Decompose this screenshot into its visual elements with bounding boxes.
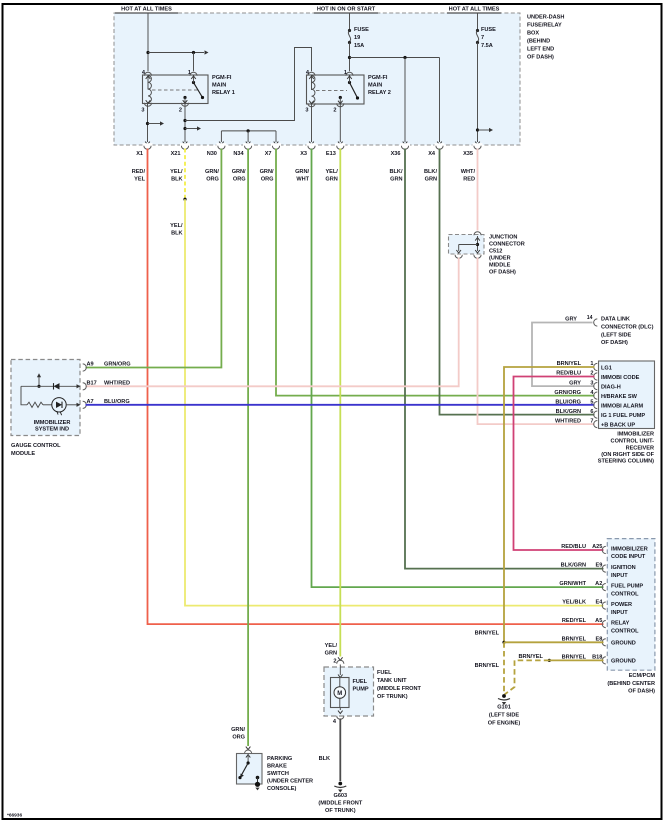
svg-text:1: 1	[188, 70, 191, 76]
svg-text:HOT AT ALL TIMES: HOT AT ALL TIMES	[449, 7, 500, 13]
svg-text:(LEFT SIDE: (LEFT SIDE	[601, 332, 632, 338]
connector N30	[218, 146, 225, 150]
svg-text:OF DASH): OF DASH)	[527, 55, 554, 61]
svg-text:PARKING: PARKING	[267, 756, 292, 762]
connector X4	[436, 146, 443, 150]
svg-text:(BEHIND CENTER: (BEHIND CENTER	[607, 681, 655, 687]
resistor R1	[27, 402, 43, 407]
relay U2 PGM-FI MAIN RELAY 2	[305, 70, 390, 114]
svg-text:YEL/BLK: YEL/BLK	[562, 600, 586, 606]
connector X7	[272, 146, 279, 150]
svg-text:MAIN: MAIN	[368, 83, 382, 89]
svg-text:WHT/: WHT/	[461, 169, 476, 175]
svg-text:(ON RIGHT SIDE OF: (ON RIGHT SIDE OF	[601, 452, 654, 458]
relay 2 coil-switch dashed link	[316, 90, 347, 92]
svg-text:IMMOBILIZER: IMMOBILIZER	[611, 547, 648, 553]
svg-text:GRN: GRN	[390, 177, 402, 183]
svg-text:+B BACK UP: +B BACK UP	[601, 422, 635, 428]
svg-text:C512: C512	[489, 249, 502, 255]
svg-text:STEERING COLUMN): STEERING COLUMN)	[598, 459, 654, 465]
svg-text:GRN/: GRN/	[295, 169, 309, 175]
gauge internal: branch arrow up	[38, 376, 40, 387]
wire YEL/GRN from E13 to fuel pump	[339, 149, 341, 657]
receiver pin 2	[594, 373, 598, 380]
svg-text:5: 5	[590, 399, 593, 405]
svg-text:BLK: BLK	[319, 756, 330, 762]
svg-text:CONNECTOR (DLC): CONNECTOR (DLC)	[601, 325, 654, 331]
junction connector C512	[449, 232, 525, 276]
svg-text:GRN: GRN	[325, 177, 337, 183]
wire drop to X4	[439, 58, 441, 143]
svg-text:OF DASH): OF DASH)	[628, 689, 655, 695]
svg-text:BLK/: BLK/	[390, 169, 403, 175]
wire YEL/BLK from X21 dashed to splice	[184, 149, 186, 200]
svg-text:GROUND: GROUND	[611, 658, 636, 664]
svg-text:OF TRUNK): OF TRUNK)	[377, 694, 408, 700]
svg-text:LG1: LG1	[601, 365, 612, 371]
relay 1 pin arcs	[144, 72, 151, 76]
svg-text:GRN/: GRN/	[232, 169, 246, 175]
svg-text:YEL/: YEL/	[170, 223, 183, 229]
relay 2 switch	[348, 81, 351, 84]
wire BRN/YEL from receiver pin1 down to E8 junction	[504, 367, 595, 642]
wire GRN/WHT from X3 to ECM A2	[312, 149, 604, 588]
connector row backing	[143, 143, 483, 148]
svg-text:BLK: BLK	[171, 231, 182, 237]
svg-text:YEL: YEL	[134, 177, 145, 183]
under-dash fuse/relay box	[114, 13, 520, 145]
svg-text:(MIDDLE FRONT: (MIDDLE FRONT	[377, 686, 421, 692]
gauge pin A7	[83, 401, 87, 408]
svg-text:A25: A25	[592, 544, 602, 550]
receiver pin 4	[594, 392, 598, 399]
fuel pump wire arrow	[338, 657, 343, 660]
ECM pin E9	[602, 565, 606, 572]
fuel pump motor M1	[339, 678, 341, 708]
fuel pump inner box	[339, 665, 341, 676]
wire branch to relay 1 pin 1	[148, 52, 204, 54]
svg-text:X35: X35	[463, 151, 473, 157]
svg-text:RELAY 1: RELAY 1	[212, 90, 235, 96]
svg-text:3: 3	[590, 380, 593, 386]
ground G101	[498, 694, 510, 705]
svg-text:TANK UNIT: TANK UNIT	[377, 678, 407, 684]
splice bus N30/N34/X7	[221, 130, 276, 132]
svg-text:3: 3	[141, 108, 144, 114]
svg-text:GRY: GRY	[565, 316, 577, 322]
svg-text:INPUT: INPUT	[611, 610, 628, 616]
junction BRN/YEL at E8	[502, 641, 505, 644]
svg-text:MAIN: MAIN	[212, 83, 226, 89]
connector X36	[401, 146, 408, 150]
diode D1	[54, 383, 60, 389]
svg-text:BLK/: BLK/	[424, 169, 437, 175]
svg-text:CONTROL UNIT-: CONTROL UNIT-	[611, 439, 655, 445]
svg-text:IGNITION: IGNITION	[611, 565, 636, 571]
junction fuse7 stub arrow	[476, 128, 479, 131]
svg-text:A2: A2	[595, 581, 602, 587]
relay 1 coil-switch dashed link	[152, 89, 199, 91]
svg-text:E13: E13	[326, 151, 336, 157]
svg-text:BRN/YEL: BRN/YEL	[557, 361, 582, 367]
wire WHT/RED from C512 to receiver pin 7	[478, 258, 595, 425]
svg-text:6: 6	[590, 409, 593, 415]
svg-text:GRN/WHT: GRN/WHT	[559, 581, 586, 587]
receiver pin 1	[594, 363, 598, 370]
wire GRN/ORG from X7 to receiver pin 4	[276, 149, 595, 396]
svg-text:BLK/GRN: BLK/GRN	[556, 409, 581, 415]
connector X3	[308, 146, 315, 150]
receiver pin 5	[594, 402, 598, 409]
svg-text:PGM-FI: PGM-FI	[368, 75, 388, 81]
ECM/PCM module	[592, 539, 655, 671]
label HOT IN ON OR START	[314, 12, 378, 14]
svg-text:X21: X21	[171, 151, 181, 157]
svg-text:GRN/: GRN/	[260, 169, 274, 175]
junction fuse19 output	[348, 56, 351, 59]
wire fuse19 to X36/X4 drops	[350, 57, 440, 59]
svg-text:OF TRUNK): OF TRUNK)	[325, 808, 356, 814]
svg-text:GRN: GRN	[425, 177, 437, 183]
wire BLK from fuel pump to G603	[339, 719, 341, 782]
svg-text:E4: E4	[595, 600, 603, 606]
wire GRN/ORG from N34 to parking brake switch	[247, 149, 249, 747]
svg-text:G101: G101	[497, 705, 511, 711]
svg-text:BOX: BOX	[527, 31, 539, 37]
connector N34	[245, 146, 252, 150]
svg-text:RED/BLU: RED/BLU	[556, 371, 581, 377]
gauge internal wire to B17 with diode	[21, 385, 77, 387]
fuel tank unit box	[324, 667, 374, 716]
svg-text:RED/YEL: RED/YEL	[562, 618, 587, 624]
svg-text:YEL/: YEL/	[170, 169, 183, 175]
svg-text:A5: A5	[595, 618, 602, 624]
fuel pump bottom exit	[339, 708, 341, 711]
svg-text:BLK: BLK	[171, 177, 182, 183]
svg-text:CONNECTOR: CONNECTOR	[489, 242, 525, 248]
svg-text:IMMOBI CODE: IMMOBI CODE	[601, 375, 640, 381]
connector X21	[181, 146, 188, 150]
svg-text:FUEL: FUEL	[377, 670, 392, 676]
svg-text:H/BRAKE SW: H/BRAKE SW	[601, 394, 638, 400]
wire hot feed to relay 1 coil	[147, 13, 149, 71]
gauge internal left drop	[21, 386, 27, 405]
svg-text:19: 19	[354, 35, 360, 41]
wire BLU/ORG from gauge A7 to receiver pin 5	[86, 404, 595, 406]
svg-text:WHT/RED: WHT/RED	[555, 418, 581, 424]
svg-text:(UNDER: (UNDER	[489, 256, 511, 262]
svg-text:MIDDLE: MIDDLE	[489, 263, 511, 269]
svg-text:SWITCH: SWITCH	[267, 771, 289, 777]
svg-text:B17: B17	[87, 380, 97, 386]
svg-text:HOT AT ALL TIMES: HOT AT ALL TIMES	[121, 7, 172, 13]
wire WHT/RED from X35 to junction connector C512	[477, 149, 479, 231]
svg-text:FUSE/RELAY: FUSE/RELAY	[527, 23, 562, 29]
wire relay1 pin3 to X1	[147, 104, 149, 143]
svg-text:ORG: ORG	[206, 177, 219, 183]
label IMMOBILIZER SYSTEM IND	[77, 384, 81, 388]
svg-text:(BEHIND: (BEHIND	[527, 39, 550, 45]
wire GRN/ORG from N30 to gauge A9	[86, 149, 222, 368]
svg-text:2: 2	[333, 659, 336, 665]
wire BRN/YEL dashed to G101	[503, 642, 505, 694]
svg-text:2: 2	[179, 108, 182, 114]
wire RED/BLU from receiver pin2 to ECM A25	[514, 377, 604, 551]
junction	[146, 51, 149, 54]
wire drop to X7	[275, 131, 277, 142]
ECM pin B18	[602, 657, 606, 664]
relay 2 pin arcs	[308, 72, 315, 76]
gauge pin A9	[83, 364, 87, 371]
connector E13	[337, 146, 344, 150]
svg-text:YEL/: YEL/	[325, 643, 338, 649]
svg-text:(LEFT SIDE: (LEFT SIDE	[489, 713, 520, 719]
svg-text:GRN/ORG: GRN/ORG	[104, 362, 131, 368]
ground contact inside switch	[256, 776, 260, 780]
svg-text:GRN/: GRN/	[205, 169, 219, 175]
receiver pin 6	[594, 411, 598, 418]
svg-text:X7: X7	[265, 151, 272, 157]
svg-text:14: 14	[587, 315, 593, 321]
label HOT AT ALL TIMES (right)	[447, 12, 501, 14]
svg-text:7.5A: 7.5A	[481, 43, 493, 49]
svg-text:7: 7	[590, 418, 593, 424]
svg-text:ECM/PCM: ECM/PCM	[629, 673, 656, 679]
wire relay2 pin3 to X3	[311, 104, 313, 142]
svg-text:SYSTEM IND: SYSTEM IND	[35, 427, 69, 433]
ECM pin A5	[602, 621, 606, 628]
connector X1	[144, 146, 151, 150]
ground G603	[334, 782, 346, 793]
data link connector DLC	[532, 315, 654, 386]
label HOT AT ALL TIMES (left)	[115, 12, 178, 14]
svg-text:DIAG-H: DIAG-H	[601, 384, 621, 390]
svg-text:WHT/RED: WHT/RED	[104, 380, 130, 386]
svg-text:CONTROL: CONTROL	[611, 591, 639, 597]
receiver pin 3	[594, 383, 598, 390]
svg-text:ORG: ORG	[233, 177, 246, 183]
relay U1 PGM-FI MAIN RELAY 1	[141, 70, 234, 114]
svg-text:RED: RED	[463, 177, 475, 183]
svg-text:GAUGE CONTROL: GAUGE CONTROL	[11, 443, 61, 449]
ECM pin E4	[602, 602, 606, 609]
svg-text:N30: N30	[207, 151, 217, 157]
svg-text:IMMOBILIZER: IMMOBILIZER	[34, 420, 71, 426]
gauge pin B17	[83, 383, 87, 390]
svg-text:RECEIVER: RECEIVER	[626, 445, 654, 451]
wire BLK/GRN from X36 to ECM E9	[405, 149, 604, 569]
fuse F19	[348, 13, 369, 71]
parking brake switch S1	[237, 754, 263, 791]
svg-text:CODE INPUT: CODE INPUT	[611, 554, 646, 560]
svg-text:FUSE: FUSE	[354, 27, 369, 33]
wire relay2 pin2 to E13	[339, 104, 341, 142]
svg-text:MODULE: MODULE	[11, 451, 35, 457]
svg-text:(UNDER CENTER: (UNDER CENTER	[267, 779, 313, 785]
svg-text:RELAY 2: RELAY 2	[368, 90, 391, 96]
svg-text:DATA LINK: DATA LINK	[601, 317, 630, 323]
parking brake connector	[245, 750, 252, 754]
svg-text:GRN/: GRN/	[231, 727, 245, 733]
svg-text:POWER: POWER	[611, 602, 632, 608]
ECM pin E8	[602, 639, 606, 646]
svg-text:GRN/ORG: GRN/ORG	[554, 390, 581, 396]
wire relay1 pin2 to X21 with branches	[184, 104, 186, 143]
svg-text:G603: G603	[333, 793, 347, 799]
wire BRN/YEL B18 ground branch	[548, 659, 551, 662]
wire RED/YEL from X1 to ECM A5	[148, 149, 604, 625]
svg-text:PGM-FI: PGM-FI	[212, 75, 232, 81]
svg-text:E9: E9	[595, 563, 602, 569]
svg-text:X1: X1	[136, 151, 143, 157]
svg-text:RED/: RED/	[132, 169, 146, 175]
svg-text:X3: X3	[300, 151, 307, 157]
wire YEL/BLK solid to ECM E4	[185, 199, 604, 605]
svg-text:15A: 15A	[354, 43, 364, 49]
svg-text:OF DASH): OF DASH)	[601, 340, 628, 346]
svg-text:JUNCTION: JUNCTION	[489, 235, 517, 241]
immobilizer control unit-receiver	[590, 361, 654, 429]
svg-text:CONSOLE): CONSOLE)	[267, 786, 297, 792]
svg-text:BRN/YEL: BRN/YEL	[475, 630, 500, 636]
svg-text:CONTROL: CONTROL	[611, 628, 639, 634]
svg-text:OF ENGINE): OF ENGINE)	[488, 721, 521, 727]
ECM pin A2	[602, 584, 606, 591]
svg-text:GRY: GRY	[569, 380, 581, 386]
wire drop to N30	[220, 131, 222, 142]
svg-text:GROUND: GROUND	[611, 640, 636, 646]
C512 internal wire	[477, 236, 479, 251]
svg-text:BRAKE: BRAKE	[267, 764, 287, 770]
svg-text:RELAY: RELAY	[611, 621, 630, 627]
junction with stub arrow	[146, 122, 149, 125]
svg-text:1: 1	[344, 70, 347, 76]
relay 1 coil	[148, 76, 151, 103]
ECM pin A25	[602, 546, 606, 553]
svg-text:*66936: *66936	[7, 813, 22, 819]
svg-text:WHT: WHT	[296, 177, 309, 183]
wire GRY from receiver pin3 to DLC	[532, 323, 595, 387]
wire BLK/GRN from X4 to receiver pin 6	[440, 149, 595, 415]
svg-text:ORG: ORG	[261, 177, 274, 183]
junction relay1 pin2 to relay2 coil feed	[183, 119, 186, 122]
wire drop to N34	[247, 131, 249, 142]
relay 2 coil	[312, 76, 315, 104]
svg-text:HOT IN ON OR START: HOT IN ON OR START	[317, 7, 376, 13]
svg-text:BRN/YEL: BRN/YEL	[475, 663, 500, 669]
svg-text:GRN: GRN	[325, 651, 337, 657]
connector X35	[474, 146, 481, 150]
receiver pin 7	[594, 421, 598, 428]
parking brake wire arrow	[246, 747, 251, 750]
LED immobilizer system indicator	[52, 398, 66, 412]
splice on YEL/BLK	[183, 198, 186, 201]
svg-text:M: M	[337, 691, 342, 697]
fuel pump connector pin 2	[337, 660, 344, 664]
svg-text:(MIDDLE FRONT: (MIDDLE FRONT	[318, 801, 362, 807]
svg-text:UNDER-DASH: UNDER-DASH	[527, 15, 564, 21]
svg-text:LEFT END: LEFT END	[527, 47, 554, 53]
junction with stub arrow	[183, 127, 186, 130]
fuse F7	[475, 13, 496, 145]
svg-text:YEL/: YEL/	[325, 169, 338, 175]
svg-text:2: 2	[333, 108, 336, 114]
svg-text:A9: A9	[87, 362, 94, 368]
svg-text:FUEL: FUEL	[353, 679, 368, 685]
svg-text:IG 1 FUEL PUMP: IG 1 FUEL PUMP	[601, 413, 645, 419]
svg-text:IMMOBILIZER: IMMOBILIZER	[617, 432, 654, 438]
svg-text:BLU/ORG: BLU/ORG	[555, 399, 581, 405]
svg-text:X36: X36	[391, 151, 401, 157]
svg-text:PUMP: PUMP	[353, 687, 369, 693]
svg-text:BLK/GRN: BLK/GRN	[561, 563, 586, 569]
wire BRN/YEL to ECM E8	[504, 641, 604, 643]
svg-text:IMMOBI ALARM: IMMOBI ALARM	[601, 403, 643, 409]
svg-text:INPUT: INPUT	[611, 573, 628, 579]
wire drop to X36	[404, 58, 406, 143]
svg-text:3: 3	[305, 108, 308, 114]
svg-text:N34: N34	[233, 151, 244, 157]
svg-text:OF DASH): OF DASH)	[489, 270, 516, 276]
svg-text:FUEL PUMP: FUEL PUMP	[611, 584, 643, 590]
svg-text:7: 7	[481, 35, 484, 41]
wire relay1 pin2 to relay2 pin4	[185, 48, 312, 121]
gauge control module	[11, 360, 81, 436]
svg-text:RED/BLU: RED/BLU	[561, 544, 586, 550]
relay 1 switch	[192, 81, 195, 84]
svg-text:ORG: ORG	[232, 735, 245, 741]
svg-text:X4: X4	[428, 151, 436, 157]
wire WHT/RED from C512 to gauge B17	[86, 258, 459, 387]
svg-text:BRN/YEL: BRN/YEL	[519, 654, 544, 660]
svg-text:FUSE: FUSE	[481, 27, 496, 33]
